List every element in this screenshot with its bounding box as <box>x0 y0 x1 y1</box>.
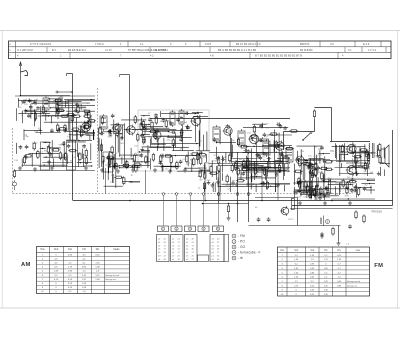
resistor R53 on dashed edge <box>13 169 15 178</box>
svg-text:4 L: 4 L <box>140 43 144 46</box>
svg-text:Osc: Osc <box>68 248 73 251</box>
svg-text:1,3: 1,3 <box>311 259 315 261</box>
svg-text:1,38: 1,38 <box>95 267 100 269</box>
svg-text:7: 7 <box>120 54 122 57</box>
svg-text:125: 125 <box>265 124 269 126</box>
transistor T8 <box>275 141 285 152</box>
svg-text:1,35: 1,35 <box>82 283 87 285</box>
svg-text:4: 4 <box>42 267 44 269</box>
solid bottom border <box>290 208 393 210</box>
svg-text:1,05: 1,05 <box>294 268 299 270</box>
transistor T10 <box>309 167 318 178</box>
svg-text:4k7: 4k7 <box>165 169 169 171</box>
transistor T7 <box>248 133 258 145</box>
svg-text:21: 21 <box>192 259 195 261</box>
svg-text:GR1: GR1 <box>345 196 350 198</box>
svg-text:2k2: 2k2 <box>82 158 86 160</box>
transistor T11 OC72 <box>346 143 356 155</box>
svg-text:Pos: Pos <box>40 248 45 251</box>
output labels <box>330 145 357 182</box>
shielded coil box L7 <box>67 140 76 170</box>
ground G4 <box>84 166 88 170</box>
svg-text:0,45: 0,45 <box>95 254 100 256</box>
svg-text:B2 0LB B0: B2 0LB B0 <box>300 48 313 52</box>
svg-text:1,8: 1,8 <box>96 271 100 273</box>
svg-text:0: 0 <box>325 264 327 266</box>
wire switch feed 5 <box>217 193 220 226</box>
svg-text:1n5: 1n5 <box>134 146 138 148</box>
svg-text:21: 21 <box>217 242 220 244</box>
svg-text:B2P07A: B2P07A <box>300 42 310 46</box>
wire switch feed 1 <box>162 193 165 226</box>
svg-text:10: 10 <box>41 291 44 293</box>
svg-text:note: note <box>356 249 361 252</box>
svg-text:2k2: 2k2 <box>335 194 339 196</box>
block2 lower texture <box>104 156 142 188</box>
wire drop supply 1 <box>237 152 239 222</box>
FM tuner module outline <box>138 110 209 171</box>
svg-text:o2: o2 <box>212 242 215 244</box>
svg-text:2,2: 2,2 <box>54 275 58 277</box>
svg-text:A 5: A 5 <box>330 42 334 46</box>
ground G16 <box>246 182 250 186</box>
svg-text:3,95: 3,95 <box>82 267 87 269</box>
wire loop right <box>331 108 333 142</box>
svg-text:8,2: 8,2 <box>38 128 42 130</box>
svg-text:4k7: 4k7 <box>169 132 173 134</box>
svg-text:Volt: Volt <box>310 249 314 252</box>
svg-text:n4: n4 <box>186 245 189 247</box>
drawing number 7RX010 <box>371 210 382 214</box>
svg-text:E6 E5 5LE 5L7: E6 E5 5LE 5L7 <box>68 48 87 52</box>
ground G3 <box>50 166 54 170</box>
svg-text:e2: e2 <box>172 256 175 258</box>
block2 texture <box>99 114 151 169</box>
ground G10 <box>153 168 157 172</box>
svg-text:0,2: 0,2 <box>68 275 72 277</box>
wire feed 2 <box>120 75 130 136</box>
svg-text:10n: 10n <box>190 160 194 162</box>
svg-text:4,5: 4,5 <box>82 254 86 256</box>
ground G23 <box>348 201 352 205</box>
svg-text:5: 5 <box>185 43 187 46</box>
capacitor C32 <box>257 217 261 222</box>
svg-text:125: 125 <box>355 147 359 149</box>
svg-text:21: 21 <box>192 242 195 244</box>
IF can S1 <box>213 125 220 143</box>
svg-text:1n5: 1n5 <box>199 140 203 142</box>
svg-text:1,2: 1,2 <box>295 255 299 257</box>
wire supply rail B <box>255 198 298 226</box>
svg-text:0,95: 0,95 <box>310 268 315 270</box>
svg-text:68k: 68k <box>89 115 93 117</box>
ground G20 <box>318 196 322 200</box>
scan page right edge <box>396 31 398 309</box>
svg-text:C34: C34 <box>213 161 218 163</box>
svg-text:OC72: OC72 <box>350 180 357 182</box>
svg-text:u3: u3 <box>172 259 175 261</box>
svg-text:1,58: 1,58 <box>95 279 100 281</box>
capacitor C33 <box>267 217 271 222</box>
svg-text:1,4: 1,4 <box>82 291 86 293</box>
svg-text:- GO: - GO <box>238 245 246 249</box>
svg-text:32: 32 <box>164 252 167 254</box>
svg-text:9 T 5 F 4 RA/1/PL: 9 T 5 F 4 RA/1/PL <box>30 42 52 46</box>
ground G25 <box>337 241 341 245</box>
svg-text:- PO: - PO <box>238 240 245 244</box>
svg-text:Filt: Filt <box>82 248 86 251</box>
svg-text:u3: u3 <box>158 249 161 251</box>
shielded coil box L6 <box>41 142 50 170</box>
svg-text:220: 220 <box>167 140 171 142</box>
svg-text:1,42: 1,42 <box>82 275 87 277</box>
svg-text:2: 2 <box>233 240 235 244</box>
svg-text:Ond: Ond <box>54 248 59 251</box>
svg-text:10n: 10n <box>217 170 221 172</box>
ground G12 <box>183 168 187 172</box>
wire switch feed 4 <box>202 193 205 226</box>
svg-text:21: 21 <box>178 245 181 247</box>
svg-text:- FM: - FM <box>238 234 245 238</box>
svg-text:9: 9 <box>42 287 44 289</box>
svg-text:2,35: 2,35 <box>68 271 73 273</box>
svg-text:4,1: 4,1 <box>82 263 86 265</box>
ground G8 <box>131 168 135 172</box>
svg-text:0,35: 0,35 <box>68 254 73 256</box>
svg-text:OC72: OC72 <box>288 219 294 221</box>
svg-text:u3: u3 <box>172 245 175 247</box>
wire output right vert <box>392 130 394 206</box>
wire top feed <box>67 74 73 108</box>
contact circle 2 <box>236 193 239 196</box>
svg-text:1,45: 1,45 <box>82 287 87 289</box>
svg-text:blocage accord: blocage accord <box>347 280 360 283</box>
wire output top rail <box>330 141 370 143</box>
tuning gang C1a <box>21 99 26 105</box>
svg-text:4: 4 <box>203 228 205 231</box>
svg-text:4: 4 <box>170 42 172 46</box>
svg-text:3: 3 <box>189 228 191 231</box>
svg-text:2,5: 2,5 <box>54 258 58 260</box>
scan page bottom edge <box>0 307 400 309</box>
coil L3 <box>100 114 107 131</box>
svg-text:7RX010: 7RX010 <box>371 210 382 214</box>
svg-text:C34: C34 <box>14 160 19 162</box>
switch wafer boxes <box>157 235 225 262</box>
svg-text:1,25: 1,25 <box>294 277 299 279</box>
svg-text:4k7: 4k7 <box>79 153 83 155</box>
svg-text:blocage osc.: blocage osc. <box>347 285 358 287</box>
ground G7 <box>116 169 120 173</box>
svg-text:21: 21 <box>164 256 167 258</box>
transistor T9 <box>295 155 304 166</box>
svg-text:1,45: 1,45 <box>337 259 342 261</box>
svg-text:40: 40 <box>217 259 220 261</box>
svg-text:470: 470 <box>172 167 176 169</box>
svg-text:4k7: 4k7 <box>70 161 74 163</box>
svg-text:E 4 6: E 4 6 <box>363 42 370 46</box>
svg-text:n4: n4 <box>212 252 215 254</box>
svg-text:4 7 4 4: 4 7 4 4 <box>368 48 376 52</box>
ground G14 <box>216 180 220 184</box>
svg-text:2k2: 2k2 <box>364 185 368 187</box>
svg-text:40: 40 <box>192 239 195 241</box>
wire band drop 2 <box>219 168 221 200</box>
svg-text:2,2: 2,2 <box>68 263 72 265</box>
AM table grid <box>37 247 130 294</box>
svg-text:o2: o2 <box>158 252 161 254</box>
contact circle 1 <box>217 193 220 196</box>
svg-text:4: 4 <box>282 268 284 270</box>
svg-text:TR1: TR1 <box>330 151 335 153</box>
svg-text:17: 17 <box>192 252 195 254</box>
svg-text:L4: L4 <box>73 157 76 159</box>
label FM <box>374 263 383 269</box>
svg-text:4 2: 4 2 <box>150 54 154 57</box>
svg-text:32: 32 <box>217 256 220 258</box>
svg-text:0,45: 0,45 <box>310 277 315 279</box>
svg-text:2: 2 <box>176 228 178 231</box>
ground G1 <box>18 166 22 170</box>
svg-text:u3: u3 <box>212 245 215 247</box>
svg-text:3 L7V: 3 L7V <box>105 48 112 52</box>
coil L2 <box>56 97 62 113</box>
FM module texture <box>140 111 208 151</box>
wire loop top <box>315 107 332 109</box>
ground G6 <box>100 168 104 172</box>
label supply <box>255 207 294 221</box>
wire drop supply 2 <box>248 158 250 222</box>
ground G21 <box>298 201 302 205</box>
AM table values <box>40 248 120 293</box>
ground G24 <box>320 232 324 236</box>
svg-text:u3: u3 <box>186 256 189 258</box>
wire left ground bus <box>14 170 95 172</box>
svg-text:0,7: 0,7 <box>338 268 342 270</box>
svg-text:0: 0 <box>55 287 57 289</box>
ground G13 <box>198 169 202 173</box>
svg-text:17: 17 <box>192 245 195 247</box>
transistor T3 <box>126 125 136 136</box>
svg-text:6V: 6V <box>255 207 258 209</box>
svg-text:a1: a1 <box>172 239 175 241</box>
title block text <box>9 42 376 57</box>
left AM block texture <box>16 98 96 140</box>
svg-text:AM: AM <box>21 262 31 268</box>
wire AM top rail <box>15 95 95 97</box>
wire loop left <box>284 119 315 132</box>
IF can S2 <box>238 129 245 147</box>
wire band drop 6 <box>145 170 147 194</box>
wire switch feed 3 <box>189 193 192 226</box>
svg-text:4 1: 4 1 <box>348 48 352 52</box>
svg-text:1,2: 1,2 <box>324 255 328 257</box>
svg-text:1,47: 1,47 <box>82 279 87 281</box>
svg-text:1k: 1k <box>106 121 109 123</box>
svg-text:5: 5 <box>327 220 329 224</box>
ground G17 <box>261 181 265 185</box>
svg-text:39p: 39p <box>25 136 29 138</box>
wire antenna bus <box>21 95 71 97</box>
wire bottom bus <box>73 200 393 202</box>
svg-text:0: 0 <box>55 291 57 293</box>
svg-text:40: 40 <box>217 239 220 241</box>
svg-text:Filt: Filt <box>324 249 327 252</box>
coil L1 <box>43 96 49 112</box>
wire band drop 5 <box>105 168 107 194</box>
svg-text:o2: o2 <box>158 239 161 241</box>
svg-text:a1: a1 <box>186 252 189 254</box>
svg-text:Div: Div <box>338 250 342 252</box>
svg-text:e2: e2 <box>158 245 161 247</box>
svg-text:L T04 A: L T04 A <box>95 42 104 46</box>
transistor T5 <box>152 130 161 141</box>
svg-text:5,6: 5,6 <box>54 267 58 269</box>
wire node 30 <box>56 91 73 93</box>
resistor R40 <box>289 130 298 132</box>
svg-text:u3: u3 <box>212 239 215 241</box>
wire left vertical long <box>72 107 74 200</box>
svg-text:Pos: Pos <box>280 250 285 252</box>
scan page left edge <box>1 31 3 309</box>
coil L5 <box>179 109 184 126</box>
svg-text:Volt: Volt <box>294 249 298 252</box>
svg-text:5: 5 <box>42 271 44 273</box>
wire IF rail <box>150 118 290 120</box>
svg-text:2: 2 <box>282 259 284 261</box>
svg-text:39p: 39p <box>318 149 322 151</box>
elco C27 <box>308 193 311 200</box>
svg-text:GR1: GR1 <box>58 145 63 147</box>
svg-text:8,2: 8,2 <box>364 174 368 176</box>
svg-text:17: 17 <box>164 249 167 251</box>
svg-text:40: 40 <box>164 259 167 261</box>
driver transformer TR1 <box>336 145 344 160</box>
svg-text:4: 4 <box>233 251 235 255</box>
svg-text:6: 6 <box>282 277 284 279</box>
svg-text:a1: a1 <box>186 249 189 251</box>
left AM lower texture <box>14 140 92 167</box>
svg-text:e2: e2 <box>158 242 161 244</box>
svg-text:4,2: 4,2 <box>82 258 86 260</box>
ground G15 <box>231 181 235 185</box>
svg-text:1k: 1k <box>115 153 118 155</box>
switch wafer narrow col <box>224 235 229 262</box>
switch header boxes <box>158 226 224 232</box>
svg-text:47: 47 <box>148 113 151 115</box>
svg-text:0,75: 0,75 <box>337 255 342 257</box>
svg-text:S 1 LBT M M: S 1 LBT M M <box>17 48 33 52</box>
FM table note <box>320 234 350 246</box>
shielded coil box L8 <box>103 152 113 172</box>
svg-text:0,1: 0,1 <box>87 103 91 105</box>
svg-text:a 4: a 4 <box>346 244 350 246</box>
wire supply rail A <box>202 203 249 205</box>
svg-text:15k: 15k <box>110 182 114 184</box>
svg-text:1: 1 <box>233 234 235 238</box>
transistor T1 AF117 <box>80 121 90 132</box>
svg-text:5p: 5p <box>303 183 306 185</box>
svg-text:C: C <box>9 55 11 57</box>
battery B1 <box>321 216 324 227</box>
svg-text:3k3: 3k3 <box>34 104 38 106</box>
svg-text:0,25: 0,25 <box>68 283 73 285</box>
svg-text:A: A <box>9 43 11 46</box>
transistor T2 <box>112 123 122 134</box>
svg-text:a1: a1 <box>172 252 175 254</box>
svg-text:0,2: 0,2 <box>295 264 299 266</box>
antenna A1 <box>19 62 27 96</box>
svg-text:1: 1 <box>42 254 44 256</box>
svg-text:4: 4 <box>17 53 19 57</box>
title block table frame <box>9 41 392 59</box>
circled node 5a <box>326 220 330 224</box>
svg-text:2 8 6: 2 8 6 <box>205 42 211 46</box>
svg-text:40: 40 <box>192 249 195 251</box>
svg-text:B 7 B5 B2 B2 B0 B2 B2 B5 B0 B2: B 7 B5 B2 B2 B0 B2 B2 B5 B0 B2 B7 B <box>255 53 302 57</box>
svg-text:21: 21 <box>178 239 181 241</box>
svg-text:S7: S7 <box>265 137 268 139</box>
transistor T6 <box>223 126 233 137</box>
svg-text:1,2: 1,2 <box>338 277 342 279</box>
capacitor C34 <box>348 224 352 229</box>
svg-text:OC72: OC72 <box>350 145 357 147</box>
transistor T14 below rail <box>227 203 231 221</box>
svg-text:0,2: 0,2 <box>68 291 72 293</box>
FM table grid <box>278 247 370 296</box>
svg-text:1,75: 1,75 <box>68 267 73 269</box>
svg-text:4,15: 4,15 <box>54 279 59 281</box>
svg-text:a1: a1 <box>186 242 189 244</box>
output texture <box>297 177 375 200</box>
ground G18 <box>276 183 280 187</box>
transistor T13 <box>280 206 289 216</box>
output upper texture <box>330 143 390 176</box>
svg-text:68k: 68k <box>232 180 236 182</box>
svg-text:4 B: 4 B <box>210 54 214 57</box>
svg-text:32: 32 <box>164 239 167 241</box>
svg-text:125: 125 <box>318 155 322 157</box>
svg-text:T3: T3 <box>198 188 201 190</box>
svg-text:125: 125 <box>111 175 115 177</box>
wire band drop 1 <box>204 162 206 200</box>
svg-text:1,2: 1,2 <box>324 277 328 279</box>
svg-text:1,35: 1,35 <box>95 263 100 265</box>
IF lower texture <box>198 152 290 192</box>
svg-text:68k: 68k <box>364 171 368 173</box>
svg-text:3: 3 <box>42 263 44 265</box>
coil L4 <box>170 110 175 127</box>
svg-text:32: 32 <box>178 259 181 261</box>
svg-text:B5 G B0 B2 B2 B2 H 2 L B 2 B: B5 G B0 B2 B2 B2 H 2 L B 2 B0 <box>218 48 257 52</box>
switch S10 <box>302 132 312 141</box>
svg-text:1: 1 <box>162 228 164 231</box>
IF can S4 <box>286 146 293 164</box>
svg-text:4k7: 4k7 <box>199 180 203 182</box>
svg-text:32: 32 <box>164 242 167 244</box>
svg-text:5: 5 <box>217 228 219 231</box>
svg-text:4,2: 4,2 <box>54 263 58 265</box>
svg-text:32: 32 <box>217 249 220 251</box>
FM table values <box>280 249 361 296</box>
svg-text:GR1: GR1 <box>108 136 113 138</box>
trimmer C36 on dashed edge <box>13 180 17 190</box>
svg-text:470: 470 <box>367 169 371 171</box>
svg-text:0,1: 0,1 <box>303 197 307 199</box>
svg-text:17: 17 <box>178 252 181 254</box>
svg-text:1,05: 1,05 <box>324 268 329 270</box>
loudspeaker LS <box>381 145 389 167</box>
